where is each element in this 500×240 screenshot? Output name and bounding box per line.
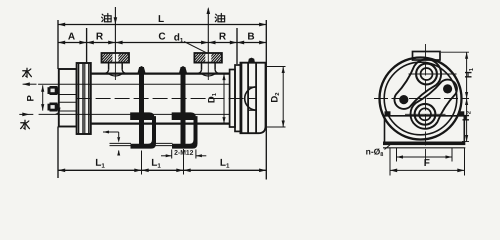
svg-text:P: P: [26, 94, 37, 101]
svg-text:B: B: [247, 31, 254, 42]
svg-text:R: R: [219, 31, 227, 42]
svg-text:C: C: [158, 31, 165, 42]
svg-text:L: L: [158, 14, 164, 25]
svg-text:A: A: [68, 31, 75, 42]
svg-text:R: R: [96, 31, 104, 42]
svg-text:F: F: [424, 158, 430, 169]
